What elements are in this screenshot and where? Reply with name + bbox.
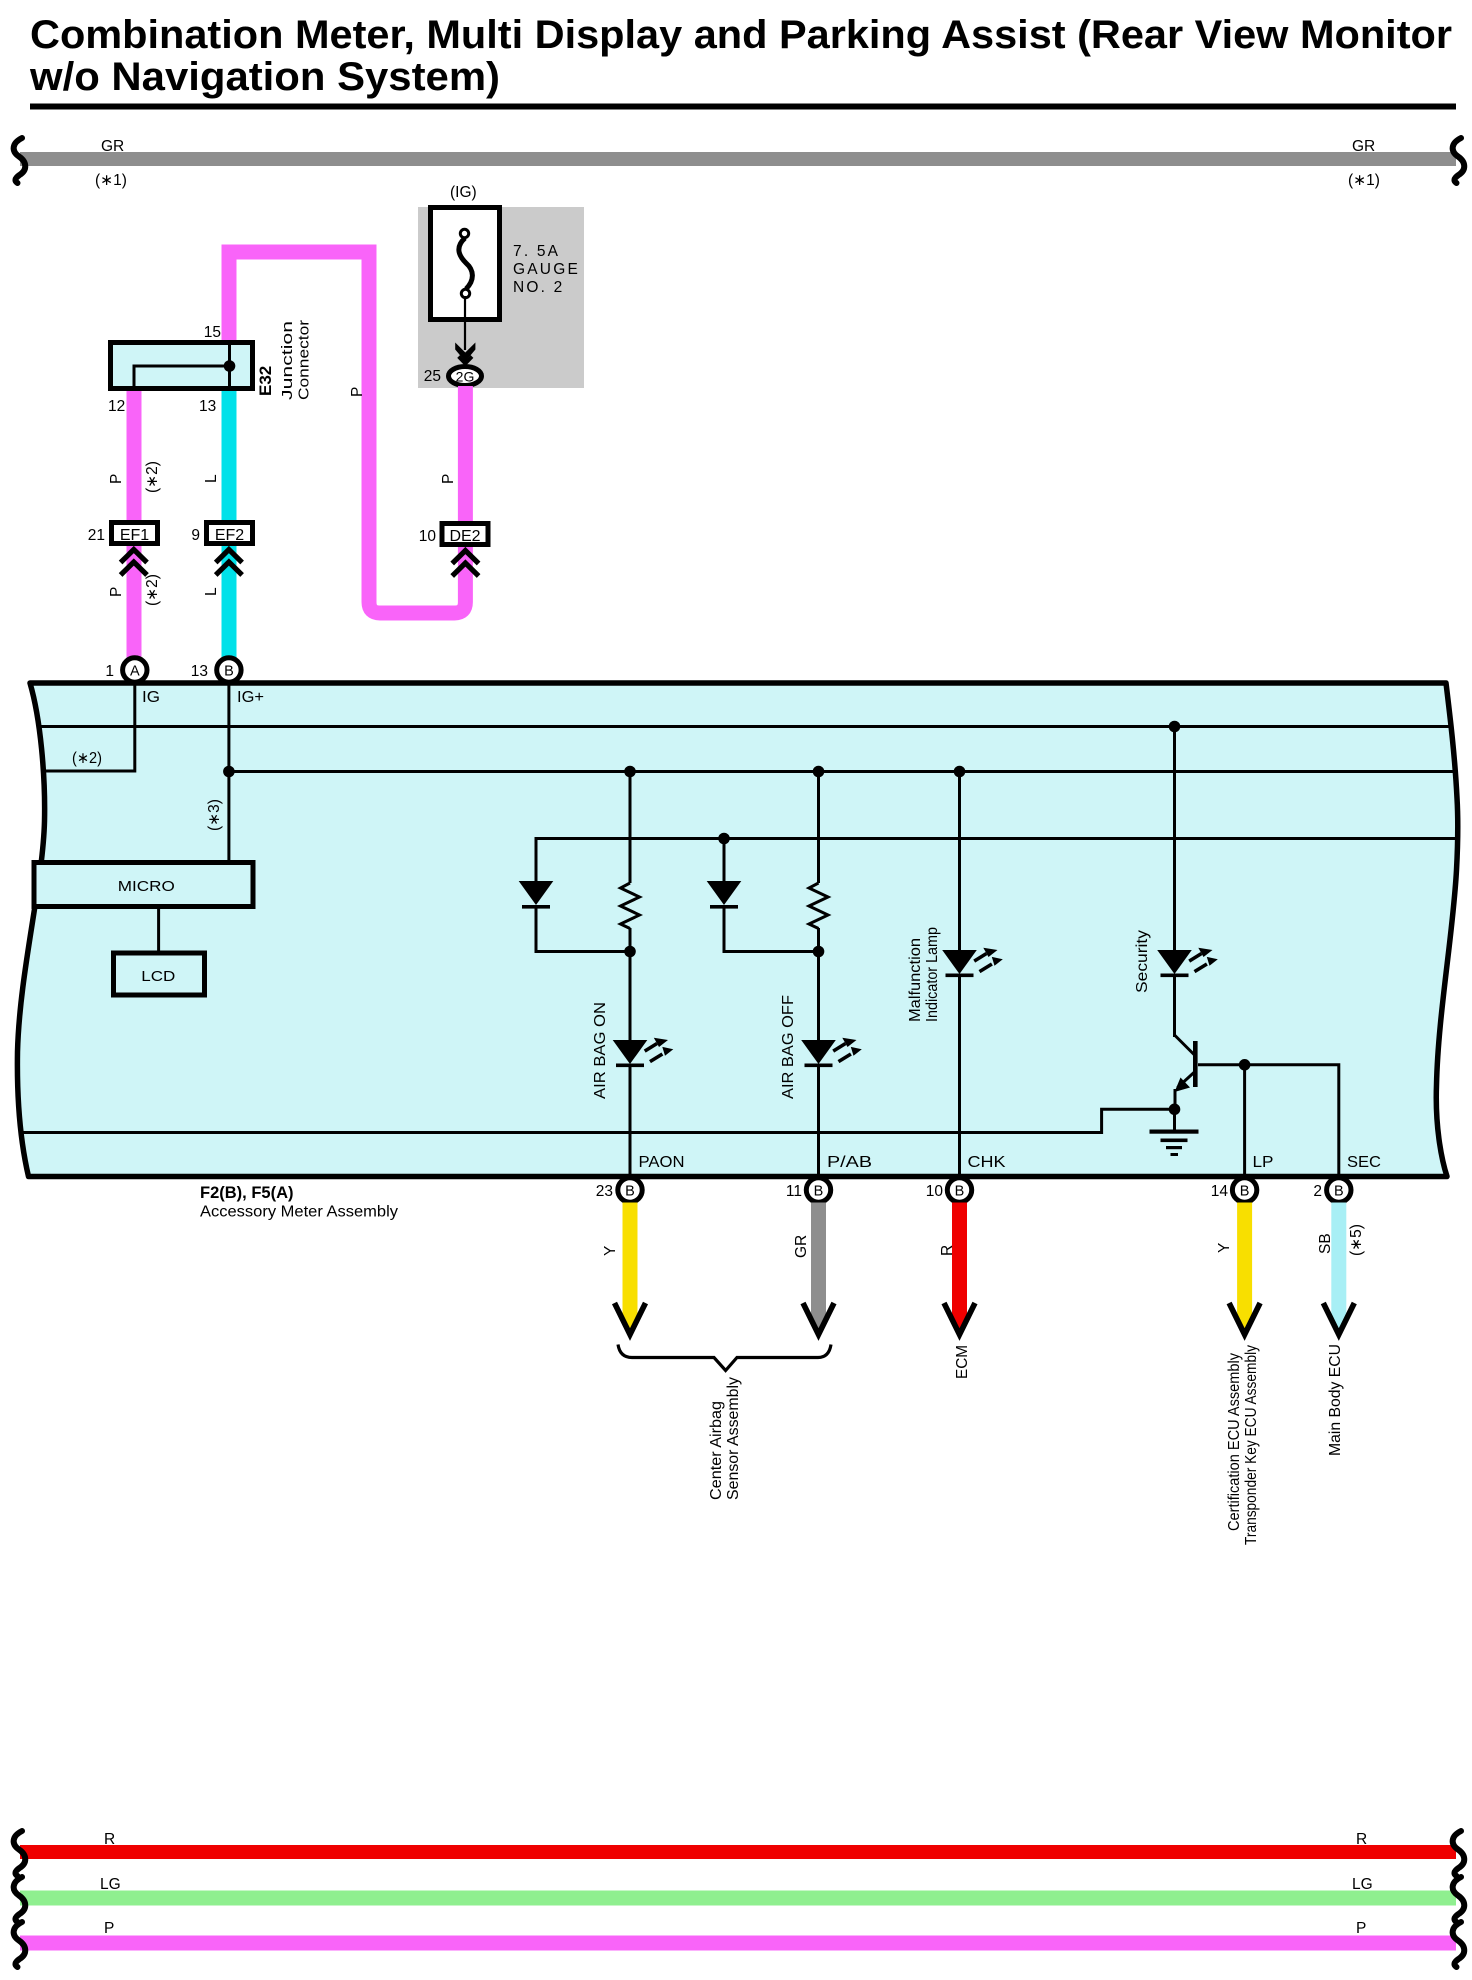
svg-text:GAUGE: GAUGE xyxy=(513,261,580,278)
svg-text:Main Body ECU: Main Body ECU xyxy=(1327,1344,1344,1456)
arrowhead into 2G xyxy=(455,343,475,362)
junction dot R2 bottom xyxy=(813,946,825,958)
svg-text:P: P xyxy=(104,1920,114,1937)
squiggle LG left xyxy=(14,1877,26,1922)
svg-text:ECM: ECM xyxy=(954,1345,971,1379)
internal rail y771 xyxy=(229,770,1454,773)
svg-text:P: P xyxy=(108,474,125,484)
squiggle P left xyxy=(14,1922,26,1967)
internal rail y838 xyxy=(536,839,1455,882)
junction dot emitter xyxy=(1169,1104,1181,1116)
svg-text:13: 13 xyxy=(199,398,216,415)
connector 2G oval xyxy=(449,367,482,386)
svg-text:12: 12 xyxy=(108,398,125,415)
pin B circle xyxy=(217,658,241,682)
svg-text:LG: LG xyxy=(100,1876,121,1893)
resistor R1 branch wire xyxy=(629,772,632,884)
junction connector E32 xyxy=(111,343,253,389)
svg-text:w/o Navigation System): w/o Navigation System) xyxy=(29,55,500,99)
fuse value label 7.5A GAUGE NO.2 xyxy=(513,243,580,296)
junction dot B rail xyxy=(223,766,235,778)
brace to Center Airbag Sensor Assembly xyxy=(618,1345,831,1371)
wire P from 2G to DE2 xyxy=(458,386,473,524)
junction dot security top rail xyxy=(1169,721,1181,733)
EF2 chevrons xyxy=(216,550,242,576)
svg-text:R: R xyxy=(104,1831,115,1848)
svg-text:R: R xyxy=(1356,1831,1367,1848)
junction dot PAON rail xyxy=(624,766,636,778)
svg-text:21: 21 xyxy=(88,527,105,544)
LCD block xyxy=(114,953,205,995)
wire LP to pin 14 xyxy=(1243,1065,1246,1174)
svg-text:2G: 2G xyxy=(456,369,475,385)
svg-text:(∗2): (∗2) xyxy=(144,574,161,606)
svg-text:(∗5): (∗5) xyxy=(1348,1224,1365,1256)
svg-text:Accessory Meter Assembly: Accessory Meter Assembly xyxy=(200,1204,398,1221)
continuation squiggle top-left xyxy=(14,138,26,183)
svg-text:(IG): (IG) xyxy=(450,184,477,201)
svg-text:A: A xyxy=(130,664,140,680)
svg-text:Combination Meter, Multi Displ: Combination Meter, Multi Display and Par… xyxy=(30,13,1452,57)
svg-text:(∗2): (∗2) xyxy=(144,461,161,493)
svg-text:CHK: CHK xyxy=(968,1154,1007,1171)
wire to AIR BAG OFF LED xyxy=(817,928,820,1040)
svg-text:EF1: EF1 xyxy=(120,527,149,544)
wire P E32 pin12 to EF1 xyxy=(127,388,142,522)
pin 23 B circle xyxy=(618,1178,642,1202)
svg-text:NO. 2: NO. 2 xyxy=(513,279,564,296)
wire P/AB to pin 11 xyxy=(817,1067,820,1174)
svg-text:LP: LP xyxy=(1253,1154,1274,1171)
ground rail step xyxy=(22,1109,1175,1132)
svg-text:LCD: LCD xyxy=(141,968,175,985)
svg-text:P: P xyxy=(349,387,366,397)
svg-text:15: 15 xyxy=(204,324,221,341)
wire PAON to pin 23 xyxy=(629,1067,632,1174)
pin 14 B circle xyxy=(1232,1178,1256,1202)
squiggle R left xyxy=(14,1831,26,1876)
continuation squiggle top-right xyxy=(1453,138,1465,183)
svg-text:L: L xyxy=(203,587,220,596)
svg-text:Y: Y xyxy=(602,1246,619,1256)
bus GR top rail xyxy=(20,152,1456,166)
ground xyxy=(1150,1109,1199,1156)
svg-text:(∗3): (∗3) xyxy=(206,799,223,831)
bus LG bottom rail xyxy=(20,1891,1456,1906)
svg-text:10: 10 xyxy=(926,1183,944,1200)
svg-text:B: B xyxy=(224,664,234,680)
svg-text:F2(B), F5(A): F2(B), F5(A) xyxy=(200,1184,294,1202)
svg-text:10: 10 xyxy=(419,528,437,545)
wire L E32 pin13 to EF2 xyxy=(222,388,237,522)
squiggle LG right xyxy=(1453,1877,1465,1922)
transistor Q1 xyxy=(1175,977,1198,1109)
resistor R1 xyxy=(621,883,640,929)
internal rail y726 xyxy=(37,725,1452,728)
svg-text:B: B xyxy=(1240,1184,1250,1200)
wire fuse to 2G xyxy=(464,296,466,350)
connector DE2 xyxy=(442,524,488,545)
svg-text:JunctionConnector: JunctionConnector xyxy=(279,320,313,400)
svg-text:GR: GR xyxy=(1352,138,1375,155)
squiggle P right xyxy=(1453,1922,1465,1967)
svg-text:13: 13 xyxy=(191,663,208,680)
svg-text:IG+: IG+ xyxy=(237,689,264,706)
wire R from pin 10 xyxy=(944,1203,975,1335)
svg-text:P/AB: P/AB xyxy=(827,1154,872,1171)
svg-text:EF2: EF2 xyxy=(215,527,244,544)
wire GR from pin 11 xyxy=(803,1203,834,1335)
title xyxy=(29,13,1456,110)
svg-text:1: 1 xyxy=(105,663,114,680)
bus P bottom rail xyxy=(20,1936,1456,1951)
wire Y from pin 23 xyxy=(615,1203,646,1335)
fuse block background xyxy=(418,207,584,388)
fuse 7.5A GAUGE NO.2 box xyxy=(431,208,500,320)
DE2 chevrons xyxy=(452,551,478,577)
squiggle R right xyxy=(1453,1831,1465,1876)
svg-text:SB: SB xyxy=(1317,1233,1334,1254)
svg-text:AIR BAG OFF: AIR BAG OFF xyxy=(780,995,797,1099)
junction dot LP xyxy=(1239,1059,1251,1071)
junction dot CHK rail xyxy=(954,766,966,778)
junction dot P/AB rail xyxy=(813,766,825,778)
diode D2 xyxy=(707,839,742,909)
svg-text:MICRO: MICRO xyxy=(118,878,175,895)
wire CHK to pin 10 xyxy=(958,977,961,1174)
svg-text:23: 23 xyxy=(596,1183,613,1200)
svg-text:2: 2 xyxy=(1313,1183,1322,1200)
svg-text:P: P xyxy=(440,474,457,484)
svg-text:(∗1): (∗1) xyxy=(95,172,127,189)
wire MICRO to LCD xyxy=(157,907,160,952)
pin 11 B circle xyxy=(806,1178,830,1202)
wire SB from pin 2 xyxy=(1323,1203,1354,1335)
svg-text:AIR BAG ON: AIR BAG ON xyxy=(592,1002,609,1099)
svg-text:(∗2): (∗2) xyxy=(72,750,102,767)
svg-text:DE2: DE2 xyxy=(449,528,480,545)
svg-text:L: L xyxy=(203,474,220,483)
svg-text:P: P xyxy=(1356,1920,1366,1937)
resistor R2 xyxy=(809,883,828,929)
svg-text:GR: GR xyxy=(793,1235,810,1258)
svg-text:P: P xyxy=(108,587,125,597)
wire CHK branch xyxy=(958,772,961,951)
svg-text:14: 14 xyxy=(1211,1183,1229,1200)
svg-text:B: B xyxy=(814,1184,824,1200)
wire D1/R1 bottom rail xyxy=(536,909,630,952)
bus R bottom rail xyxy=(20,1845,1456,1859)
wire L EF2 to pin B xyxy=(222,545,237,659)
wire pin A to (*2) branch xyxy=(41,684,135,771)
svg-text:Y: Y xyxy=(1216,1243,1233,1253)
resistor R2 branch wire xyxy=(817,772,820,884)
svg-text:SEC: SEC xyxy=(1347,1154,1381,1171)
accessory meter assembly box outline xyxy=(17,683,1457,1177)
EF1 chevrons xyxy=(121,550,147,576)
svg-text:IG: IG xyxy=(142,689,160,706)
svg-text:11: 11 xyxy=(786,1183,802,1200)
LED Security xyxy=(1157,948,1218,977)
wire D2/R2 bottom rail xyxy=(724,909,819,952)
LED Malfunction Indicator Lamp xyxy=(942,948,1003,977)
fuse element symbol xyxy=(459,229,473,297)
svg-text:25: 25 xyxy=(424,368,441,385)
svg-text:Security: Security xyxy=(1134,930,1151,993)
base wire to LP/SEC xyxy=(1198,1065,1339,1174)
svg-text:E32: E32 xyxy=(256,366,275,396)
svg-text:Certification ECU AssemblyTran: Certification ECU AssemblyTransponder Ke… xyxy=(1226,1345,1260,1545)
svg-text:R: R xyxy=(939,1245,956,1256)
pin A circle xyxy=(123,658,147,682)
wire security branch xyxy=(1173,727,1176,951)
wire P EF1 to pin A xyxy=(127,545,142,659)
connector EF2 xyxy=(207,523,253,544)
pin 10 B circle xyxy=(947,1178,971,1202)
svg-text:7. 5A: 7. 5A xyxy=(513,243,560,260)
wire Y from pin 14 xyxy=(1229,1203,1260,1335)
svg-text:9: 9 xyxy=(191,527,200,544)
svg-text:LG: LG xyxy=(1352,1876,1373,1893)
svg-text:B: B xyxy=(625,1184,635,1200)
svg-text:B: B xyxy=(1334,1184,1344,1200)
wire pin B down to MICRO xyxy=(227,684,230,862)
svg-text:GR: GR xyxy=(101,138,124,155)
junction dot D2 top xyxy=(718,833,730,845)
LED AIR BAG OFF xyxy=(801,1038,862,1067)
wire P loop (E32 pin15 to DE2) xyxy=(229,252,465,613)
svg-text:B: B xyxy=(955,1184,965,1200)
svg-text:(∗1): (∗1) xyxy=(1348,172,1380,189)
MICRO block xyxy=(34,863,253,907)
LED AIR BAG ON xyxy=(613,1038,674,1067)
pin 2 B circle xyxy=(1327,1178,1351,1202)
junction dot R1 bottom xyxy=(624,946,636,958)
diode D1 xyxy=(519,881,554,909)
wire to AIR BAG ON LED xyxy=(629,928,632,1040)
svg-text:MalfunctionIndicator Lamp: MalfunctionIndicator Lamp xyxy=(907,927,941,1022)
connector EF1 xyxy=(112,523,158,544)
svg-text:PAON: PAON xyxy=(639,1154,685,1171)
